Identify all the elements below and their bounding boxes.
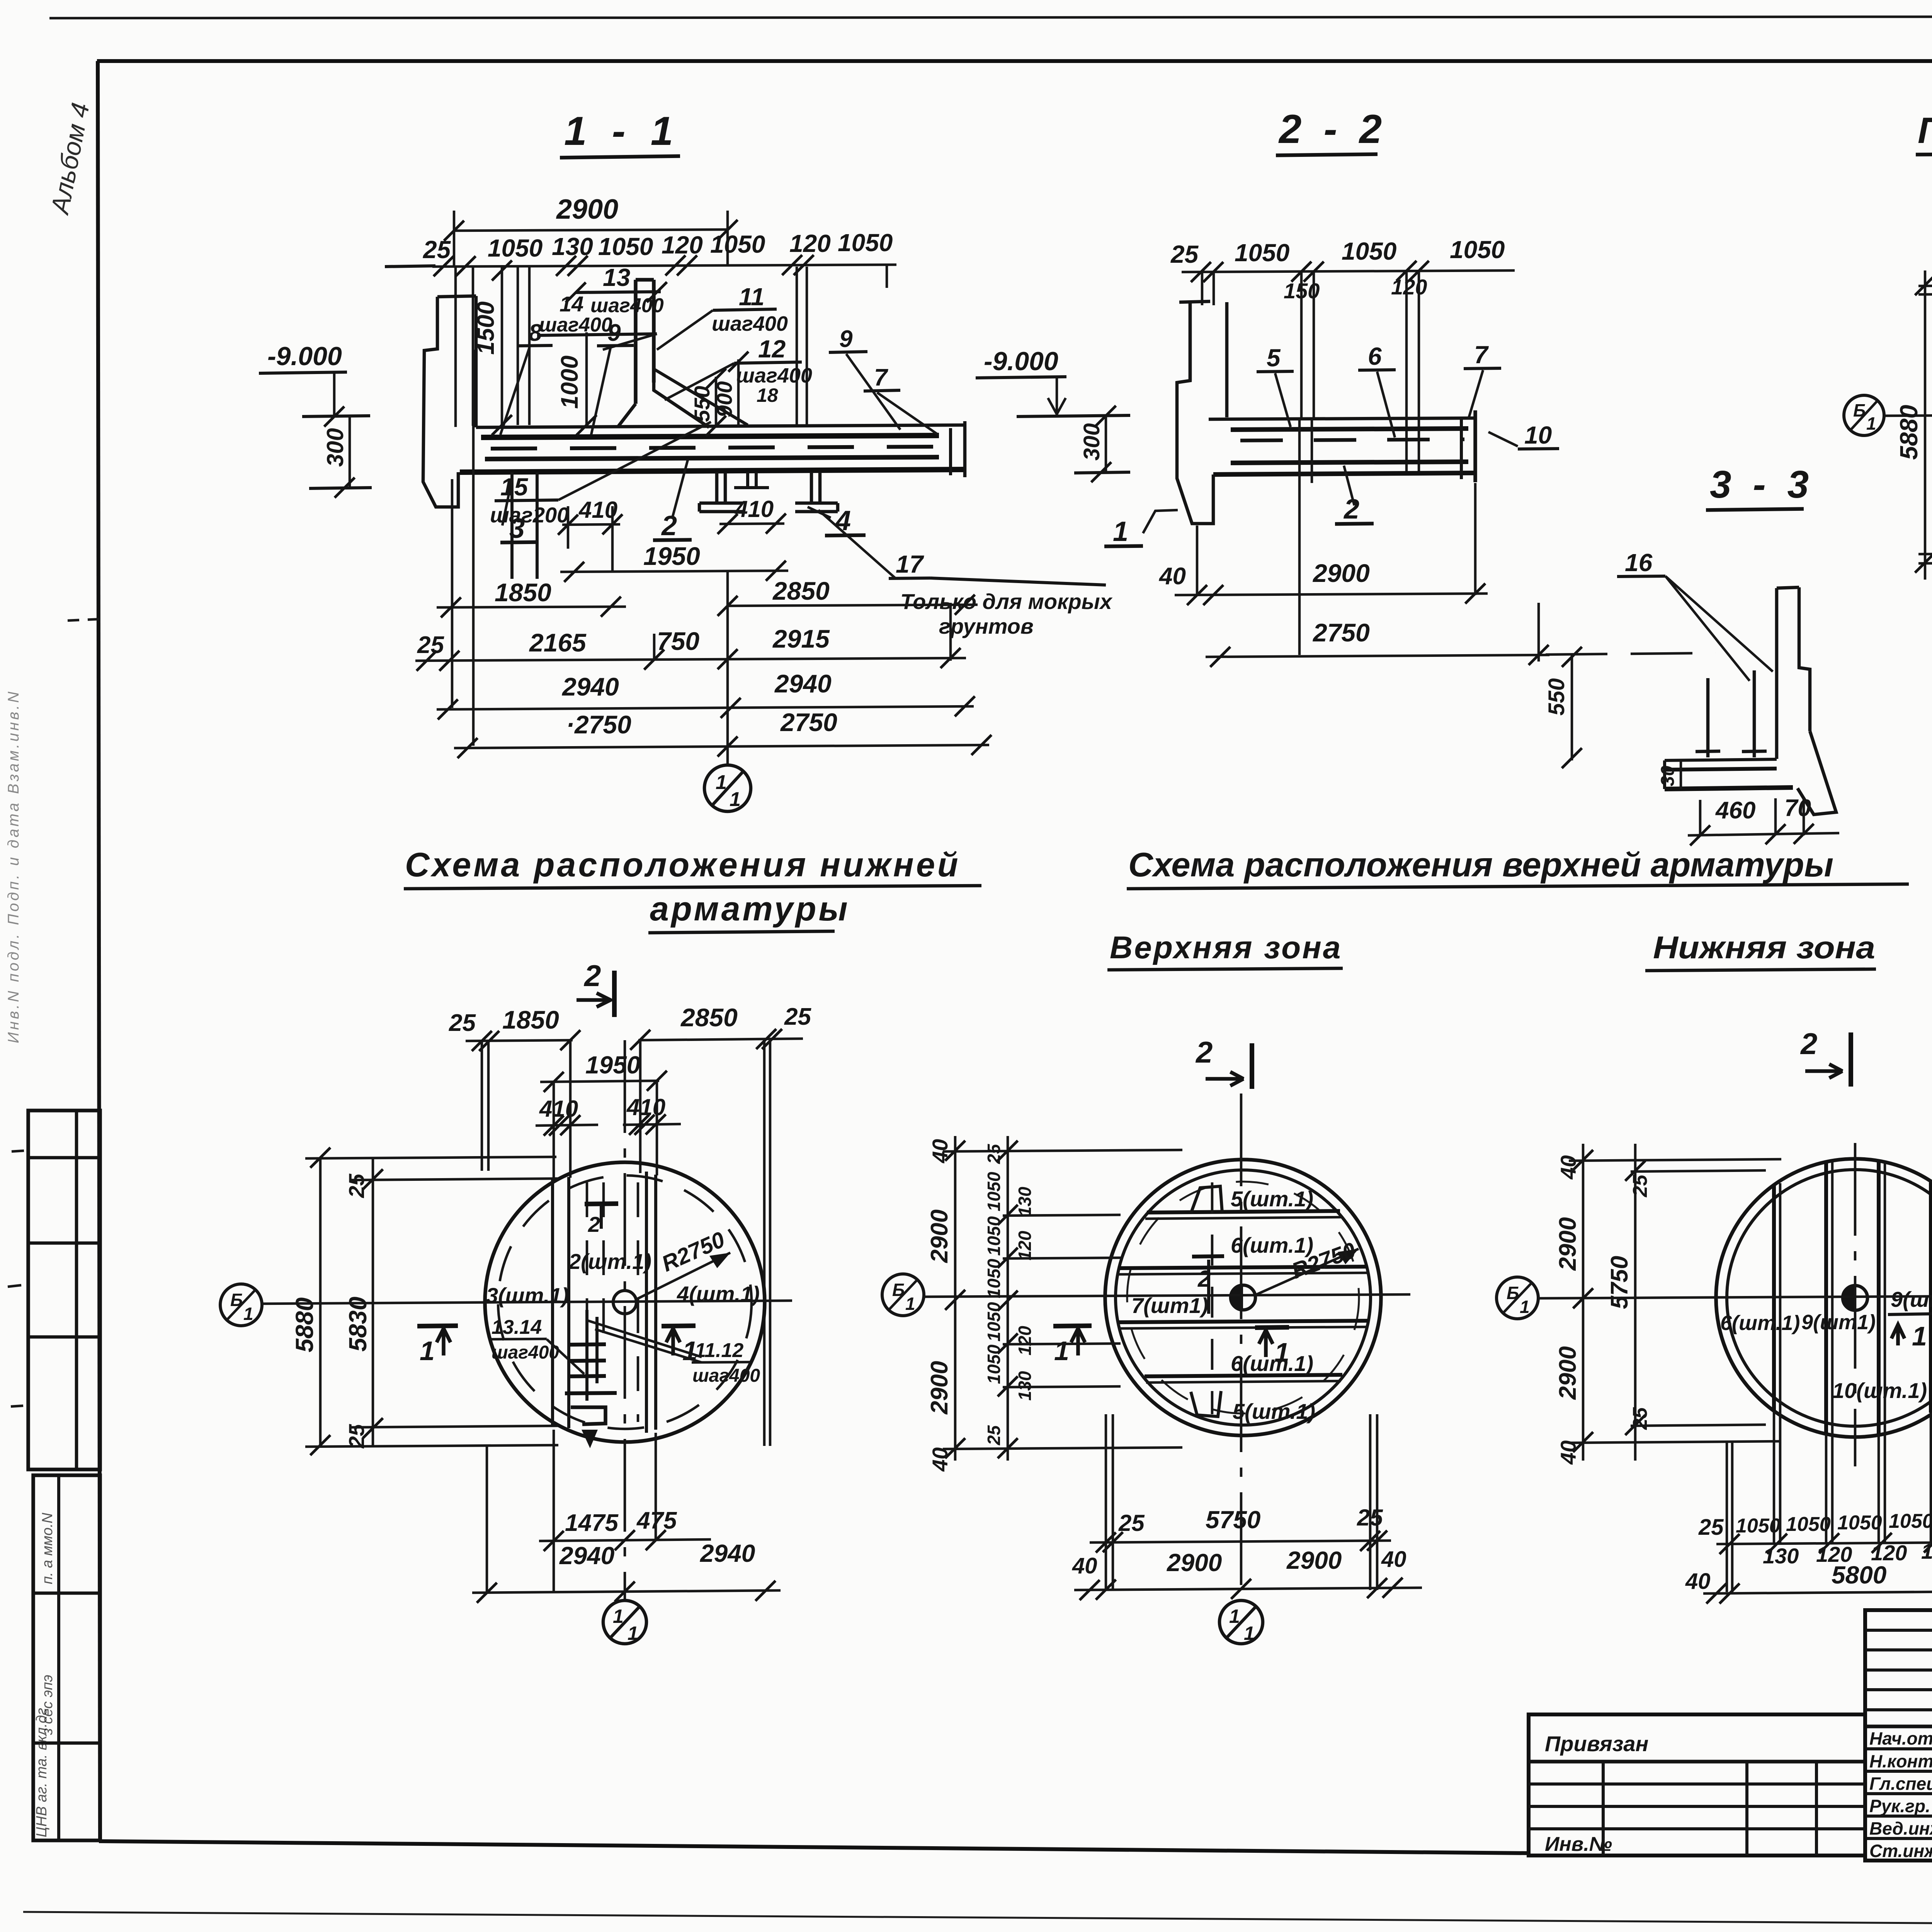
svg-text:1950: 1950 — [643, 542, 700, 570]
svg-text:9: 9 — [607, 320, 621, 346]
dimension 550 vertical — [690, 369, 726, 436]
svg-text:5750: 5750 — [1606, 1256, 1633, 1309]
left circle outer — [485, 1162, 765, 1442]
hook bars bottom centre — [565, 1310, 617, 1448]
title block signature rows — [1865, 1725, 1932, 1728]
slab 1-1 top rebar — [481, 435, 939, 437]
bar bend trapezoid top — [1191, 1186, 1222, 1213]
dimension 550 section 3-3 — [1544, 647, 1716, 768]
svg-text:1: 1 — [716, 771, 727, 794]
svg-text:·2750: ·2750 — [566, 710, 631, 739]
svg-text:6: 6 — [1368, 342, 1382, 370]
label 11.12 шаг400 — [586, 1320, 760, 1386]
section mark 2 top right circle — [1800, 1027, 1851, 1087]
svg-text:9(шт1): 9(шт1) — [1801, 1311, 1876, 1334]
centre hole left circle — [613, 1291, 636, 1314]
left dims 5880 5830 — [291, 1148, 383, 1455]
svg-text:40: 40 — [1381, 1547, 1406, 1572]
svg-text:-9.000: -9.000 — [267, 342, 342, 371]
dimension 410 right — [718, 496, 786, 534]
bottom dimension chain right circle — [1698, 1505, 1932, 1568]
svg-text:Нач.отд.: Нач.отд. — [1869, 1728, 1932, 1748]
svg-text:1: 1 — [730, 788, 741, 811]
rebar mark 7 — [1464, 341, 1501, 419]
drawing frame main border left — [98, 61, 100, 1841]
rebar mark 5 — [1257, 344, 1294, 427]
svg-text:9(шт): 9(шт) — [1891, 1287, 1932, 1311]
joint band verticals left circle — [553, 1172, 656, 1433]
section symbol 1/1 left circle — [603, 1600, 646, 1644]
rebar mark 7 right — [864, 364, 938, 435]
small section mark 2 inside — [1192, 1256, 1224, 1314]
svg-text:2: 2 — [588, 1212, 600, 1236]
left dim stack middle circle — [926, 1136, 1035, 1472]
svg-text:25: 25 — [1629, 1174, 1651, 1197]
dashed vertical middle circle — [1211, 1182, 1214, 1414]
svg-text:17: 17 — [896, 550, 925, 578]
svg-text:1050: 1050 — [984, 1259, 1004, 1298]
slab section 2-2 — [1209, 410, 1475, 482]
title underline — [1127, 884, 1909, 889]
svg-text:Схема расположения верхней арм: Схема расположения верхней арматуры — [1128, 845, 1833, 884]
svg-text:Только для мокрых: Только для мокрых — [900, 589, 1113, 614]
svg-text:2: 2 — [583, 959, 601, 993]
svg-text:Рук.гр.: Рук.гр. — [1869, 1796, 1930, 1816]
axis circle B/1 left — [220, 1284, 262, 1326]
slab section 1-1 top line — [476, 425, 965, 427]
svg-text:2900: 2900 — [1312, 559, 1370, 587]
svg-text:Вед.инж: Вед.инж — [1869, 1818, 1932, 1838]
svg-text:1050: 1050 — [1889, 1510, 1932, 1532]
svg-text:1050: 1050 — [984, 1172, 1004, 1211]
rebar mark 13 шаг400 — [566, 264, 667, 317]
svg-text:5(шт.1): 5(шт.1) — [1231, 1187, 1313, 1211]
svg-text:5880: 5880 — [1895, 405, 1923, 460]
svg-text:1050: 1050 — [1450, 236, 1505, 264]
svg-text:1: 1 — [682, 1336, 697, 1366]
svg-text:1850: 1850 — [495, 578, 551, 607]
svg-text:5880: 5880 — [291, 1298, 318, 1352]
left dimension stack verticals — [1895, 251, 1932, 582]
svg-text:40: 40 — [928, 1447, 952, 1472]
svg-text:25: 25 — [344, 1173, 369, 1198]
bars through slab 2-2 — [1298, 419, 1301, 655]
dimension 1850 — [437, 578, 626, 617]
section 3-3 title underline — [1706, 509, 1804, 510]
title block mini table rows — [1865, 1629, 1932, 1632]
svg-text:1050: 1050 — [710, 230, 765, 258]
position mark 1 section 2-2 — [1104, 510, 1178, 547]
svg-text:25: 25 — [1698, 1515, 1724, 1540]
section 2-2 title underline — [1276, 154, 1378, 155]
rebar mark 10 — [1488, 421, 1559, 449]
rebar mark 8 — [500, 320, 553, 435]
svg-text:2940: 2940 — [700, 1539, 755, 1567]
position mark 2 — [653, 460, 692, 541]
svg-text:1: 1 — [243, 1304, 253, 1324]
dimension 2900 top — [444, 194, 738, 267]
svg-text:2900: 2900 — [926, 1209, 953, 1263]
label 13.14 шаг400 — [490, 1316, 584, 1374]
dimension row 25 2165 750 2915 — [415, 603, 966, 671]
tick lines middle circle left — [943, 1150, 1182, 1449]
svg-text:Б: Б — [892, 1280, 905, 1300]
svg-text:шаг400: шаг400 — [736, 364, 812, 387]
position mark 17 with note — [818, 510, 1113, 638]
dimension 2850 — [718, 577, 978, 616]
left border dash mark — [68, 619, 101, 621]
rebar mark 9 right — [829, 326, 900, 430]
svg-text:11.12: 11.12 — [695, 1339, 743, 1362]
bottom dims middle circle 40 2900 2900 40 — [1072, 1546, 1422, 1600]
svg-text:1950: 1950 — [585, 1051, 640, 1079]
svg-text:1: 1 — [1244, 1622, 1255, 1644]
svg-text:130: 130 — [552, 233, 593, 260]
elevation mark -9.000 section 1-1 — [259, 342, 372, 498]
dimension 30 section 3-3 — [1658, 760, 1681, 789]
column T section 1-1 — [617, 280, 748, 427]
left stamp strip lower box — [33, 1475, 100, 1840]
svg-text:3: 3 — [509, 513, 525, 544]
radius R2750 — [637, 1227, 730, 1299]
svg-text:2750: 2750 — [1312, 618, 1370, 647]
svg-text:1: 1 — [1912, 1321, 1927, 1351]
horizontal axis middle circle — [924, 1294, 1410, 1297]
extension line pair wall left — [454, 267, 457, 427]
rebar mark 12 шаг400 18 — [665, 335, 812, 406]
section mark 1 left — [417, 1326, 458, 1366]
svg-text:Инв.№: Инв.№ — [1545, 1833, 1612, 1855]
svg-text:1: 1 — [1274, 1337, 1289, 1367]
svg-text:2900: 2900 — [1554, 1346, 1581, 1400]
subtitle underline — [1107, 968, 1343, 970]
dimension 1500 vertical — [473, 260, 512, 435]
svg-text:7: 7 — [1474, 341, 1489, 369]
svg-text:2940: 2940 — [774, 669, 832, 698]
title block outer frame — [1865, 1610, 1932, 1861]
left margin small marks — [12, 1151, 24, 1151]
svg-text:Верхняя зона: Верхняя зона — [1110, 930, 1342, 965]
title line 1 underline — [404, 886, 981, 889]
dimension chain 25/1050/130/1050/120/1050/120/1050 — [423, 229, 896, 276]
position mark 3 — [500, 479, 538, 544]
bottom extension verticals right circle — [1727, 1411, 1932, 1592]
middle circle outer — [1105, 1160, 1381, 1435]
axis circle B/1 right — [1497, 1277, 1538, 1319]
section mark 1 right — [662, 1326, 697, 1366]
svg-text:40: 40 — [1556, 1155, 1580, 1180]
elevation mark -9.000 section 2-2 — [976, 347, 1130, 482]
rebar mark 15 шаг200 — [490, 422, 711, 527]
svg-text:1050: 1050 — [1736, 1515, 1781, 1537]
svg-text:1: 1 — [1866, 413, 1876, 434]
svg-text:2900: 2900 — [926, 1361, 953, 1415]
svg-text:410: 410 — [539, 1096, 578, 1122]
centre vertical axis left circle — [624, 1040, 626, 1600]
rebar mark 14 шаг400 — [537, 292, 657, 350]
dashed verticals inside — [586, 1182, 588, 1312]
dimension row 2750 2750 — [454, 708, 992, 758]
svg-text:2 - 2: 2 - 2 — [1278, 107, 1387, 152]
slab 1-1 lower rebar — [485, 457, 939, 459]
svg-text:8: 8 — [529, 320, 542, 346]
svg-text:1: 1 — [1229, 1605, 1240, 1627]
svg-text:120: 120 — [1015, 1231, 1035, 1260]
svg-text:1050: 1050 — [838, 229, 893, 257]
top dimension 25 1850 2850 25 — [449, 1003, 811, 1051]
slab 1-1 right end — [963, 421, 967, 477]
vertical rebar pair below dims — [517, 267, 519, 425]
dimension 2750 row — [1206, 603, 1549, 667]
center vertical axis 1-1 — [726, 571, 729, 765]
svg-text:7: 7 — [874, 364, 888, 391]
svg-text:25: 25 — [1170, 240, 1199, 268]
svg-text:1: 1 — [1054, 1336, 1069, 1366]
svg-text:1: 1 — [905, 1294, 915, 1314]
svg-text:900: 900 — [712, 381, 736, 417]
centre vertical middle circle — [1240, 1094, 1243, 1600]
svg-text:1050: 1050 — [598, 233, 653, 260]
svg-text:шаг400: шаг400 — [492, 1342, 559, 1363]
svg-text:5(шт.1): 5(шт.1) — [1233, 1399, 1315, 1423]
dimension 1950 — [540, 1051, 667, 1180]
svg-text:15: 15 — [500, 473, 529, 501]
svg-text:Б: Б — [1507, 1283, 1519, 1303]
svg-text:Нижняя зона: Нижняя зона — [1653, 930, 1875, 965]
svg-text:1500: 1500 — [473, 301, 499, 355]
svg-text:п. а ммо.N: п. а ммо.N — [39, 1512, 56, 1584]
svg-text:1050: 1050 — [984, 1216, 1004, 1256]
tangent tick lines left circle — [305, 1157, 556, 1158]
svg-text:1 - 1: 1 - 1 — [564, 109, 680, 154]
svg-text:шаг400: шаг400 — [712, 312, 788, 335]
title underline — [1916, 152, 1932, 155]
svg-text:1050: 1050 — [488, 234, 543, 262]
short ledge line left — [385, 266, 435, 267]
left stamp strip lower box rows — [33, 1592, 100, 1595]
svg-text:2940: 2940 — [559, 1542, 614, 1570]
svg-text:5830: 5830 — [344, 1297, 372, 1352]
svg-text:2165: 2165 — [529, 628, 587, 657]
extension verticals right chain — [796, 267, 798, 426]
svg-text:ПДм1. Общий вид: ПДм1. Общий вид — [1918, 110, 1932, 151]
dimension 460 70 section 3-3 — [1688, 795, 1839, 845]
svg-text:1: 1 — [628, 1622, 638, 1644]
svg-text:5: 5 — [1267, 344, 1281, 372]
svg-text:Б: Б — [230, 1290, 243, 1310]
slab lines 3-3 — [1665, 759, 1793, 789]
wall section 3-3 — [1777, 587, 1836, 815]
svg-text:1050: 1050 — [984, 1344, 1004, 1384]
svg-text:Гл.спец.: Гл.спец. — [1869, 1774, 1932, 1794]
svg-text:2: 2 — [1800, 1027, 1817, 1061]
svg-text:5800: 5800 — [1832, 1561, 1886, 1589]
svg-text:460: 460 — [1715, 797, 1755, 824]
right circle inner — [1727, 1170, 1932, 1426]
svg-text:25: 25 — [423, 236, 451, 264]
dimension 40 2900 row — [1158, 483, 1488, 605]
svg-text:40: 40 — [1072, 1553, 1097, 1578]
svg-text:1050: 1050 — [1342, 237, 1396, 265]
svg-text:130: 130 — [1921, 1539, 1932, 1563]
section mark 1 right circle — [1891, 1321, 1927, 1351]
svg-text:ЦНВ аг. та. вкл.дг: ЦНВ аг. та. вкл.дг — [34, 1708, 50, 1837]
bottom dimension 2940 2940 — [472, 1446, 781, 1603]
slab 1-1 bottom line — [460, 469, 965, 472]
bottom tangent lines — [1918, 553, 1932, 554]
svg-text:25: 25 — [984, 1425, 1004, 1446]
svg-text:грунтов: грунтов — [939, 614, 1034, 638]
bars 3-3 — [1696, 670, 1767, 757]
top tangent lines — [1918, 284, 1932, 286]
svg-text:40: 40 — [1556, 1440, 1580, 1465]
position mark 16 with leaders — [1617, 549, 1773, 681]
dimension 900 vertical — [712, 352, 748, 427]
svg-text:40: 40 — [1685, 1569, 1711, 1594]
horizontal rebar bars middle circle — [1118, 1186, 1369, 1417]
dimension chain 25 1050 1050 1050 — [1170, 236, 1515, 303]
svg-text:300: 300 — [322, 428, 348, 467]
svg-text:Инв.N подл. Подп. и дата В: Инв.N подл. Подп. и дата Взам.инв.N — [5, 689, 22, 1043]
left dim stack right circle — [1554, 1144, 1651, 1465]
svg-text:арматуры: арматуры — [650, 889, 850, 928]
left stamp strip lower box column — [57, 1475, 60, 1840]
svg-text:Привязан: Привязан — [1545, 1731, 1648, 1756]
svg-text:Ст.инж.: Ст.инж. — [1869, 1841, 1932, 1861]
axis circle B/1 — [1844, 395, 1884, 435]
bar bend trapezoid bottom — [1191, 1391, 1221, 1417]
svg-text:10(шт.1): 10(шт.1) — [1832, 1378, 1927, 1403]
svg-text:14: 14 — [560, 292, 583, 316]
svg-text:130: 130 — [1015, 1187, 1035, 1216]
svg-text:1: 1 — [1113, 516, 1128, 547]
rebar mark 11 шаг400 — [657, 283, 788, 350]
svg-text:3(шт.1): 3(шт.1) — [486, 1283, 569, 1308]
svg-text:40: 40 — [1158, 563, 1186, 590]
extension verticals below middle circle — [1105, 1414, 1107, 1590]
dimension 410 left — [558, 497, 622, 571]
svg-text:шаг400: шаг400 — [539, 314, 612, 336]
svg-text:1850: 1850 — [502, 1005, 559, 1034]
hook bars under slab 1-1 — [699, 472, 838, 512]
centre hole right circle — [1843, 1286, 1867, 1310]
drawing frame main border bottom — [99, 1841, 1530, 1853]
title line 2 underline — [648, 931, 835, 933]
svg-text:1000: 1000 — [556, 355, 583, 409]
left circle dashed rebar circle — [498, 1175, 752, 1429]
svg-text:18: 18 — [757, 384, 778, 406]
svg-text:2(шт.1): 2(шт.1) — [568, 1249, 651, 1274]
tick lines right circle left — [1569, 1159, 1781, 1443]
left stamp strip upper box rows — [28, 1156, 100, 1160]
right circle outer — [1716, 1159, 1932, 1437]
svg-text:2750: 2750 — [780, 708, 837, 736]
svg-text:6(шт.1): 6(шт.1) — [1231, 1233, 1313, 1257]
svg-text:25: 25 — [784, 1003, 811, 1030]
dimension 410 410 — [536, 1094, 681, 1136]
drawing frame main border top — [97, 59, 1932, 63]
svg-text:2900: 2900 — [1167, 1549, 1222, 1577]
svg-text:-9.000: -9.000 — [984, 347, 1058, 376]
section mark 2 top middle — [1195, 1035, 1252, 1089]
dashed circle middle — [1127, 1182, 1359, 1413]
svg-text:120: 120 — [1015, 1326, 1035, 1355]
horizontal axis left circle — [262, 1301, 792, 1304]
svg-text:25: 25 — [417, 632, 444, 658]
svg-text:Б: Б — [1853, 400, 1866, 420]
svg-text:550: 550 — [1544, 678, 1569, 716]
position mark 2 section 2-2 — [1335, 466, 1374, 525]
drawing frame outer top edge — [49, 16, 1932, 18]
svg-text:Схема расположения нижней: Схема расположения нижней — [405, 845, 961, 884]
svg-text:30: 30 — [1658, 765, 1678, 786]
svg-text:4(шт.1): 4(шт.1) — [677, 1282, 760, 1306]
dimension 1950 — [560, 542, 788, 582]
rebar mark 6 — [1358, 342, 1396, 437]
svg-text:11: 11 — [739, 283, 764, 311]
axis circle B/1 middle — [882, 1274, 924, 1316]
svg-text:шаг400: шаг400 — [692, 1366, 760, 1386]
svg-text:410: 410 — [735, 496, 774, 522]
privyazan box — [1529, 1714, 1865, 1855]
svg-text:2: 2 — [1195, 1035, 1213, 1069]
section 1-1 title underline — [560, 156, 680, 158]
svg-text:2900: 2900 — [1554, 1217, 1581, 1271]
svg-text:16: 16 — [1625, 549, 1653, 577]
long extension verticals left — [451, 479, 454, 708]
slab 1-1 middle dashed rebar — [491, 447, 935, 449]
svg-text:2850: 2850 — [772, 577, 830, 605]
wall section 1-1 left — [423, 296, 476, 507]
svg-text:1: 1 — [420, 1336, 435, 1366]
svg-text:2900: 2900 — [1286, 1546, 1342, 1574]
svg-text:9: 9 — [839, 326, 853, 352]
bottom dims middle circle 25 5750 25 — [1090, 1505, 1391, 1553]
section mark 1 left middle — [1053, 1326, 1092, 1366]
wall section 2-2 — [1177, 301, 1227, 524]
svg-text:120: 120 — [1391, 275, 1427, 299]
bottom paper edge line — [23, 1912, 1932, 1927]
svg-text:6(шт.1): 6(шт.1) — [1231, 1351, 1313, 1376]
vertical rebar bars right circle — [1774, 1162, 1932, 1434]
svg-text:2900: 2900 — [556, 194, 618, 225]
svg-text:2: 2 — [661, 510, 677, 541]
middle circle inner — [1116, 1170, 1371, 1425]
svg-text:13.14: 13.14 — [492, 1316, 542, 1338]
svg-text:70: 70 — [1784, 795, 1811, 821]
radius R2750 middle — [1257, 1238, 1359, 1294]
extension verticals 2-2 — [1201, 272, 1204, 305]
left stamp strip upper box — [28, 1111, 100, 1469]
svg-text:12: 12 — [758, 335, 786, 363]
extension verticals top left circle — [481, 1041, 483, 1171]
svg-text:300: 300 — [1079, 423, 1104, 461]
svg-text:120: 120 — [789, 230, 831, 257]
section symbol 1/1 middle circle — [1219, 1600, 1263, 1644]
svg-text:1475: 1475 — [565, 1510, 619, 1536]
section mark 1 right middle — [1255, 1327, 1289, 1367]
left stamp strip upper box column — [75, 1111, 78, 1469]
svg-text:13: 13 — [603, 264, 630, 291]
svg-text:2850: 2850 — [680, 1003, 738, 1032]
section symbol 1/1 — [704, 765, 751, 811]
rebar label 2 sht1 — [568, 1204, 651, 1274]
subtitle underline — [1645, 969, 1876, 971]
horizontal centre line PDm1 — [1884, 413, 1932, 416]
svg-text:120: 120 — [662, 231, 703, 259]
svg-text:1050: 1050 — [1786, 1513, 1831, 1536]
svg-text:550: 550 — [690, 386, 714, 422]
